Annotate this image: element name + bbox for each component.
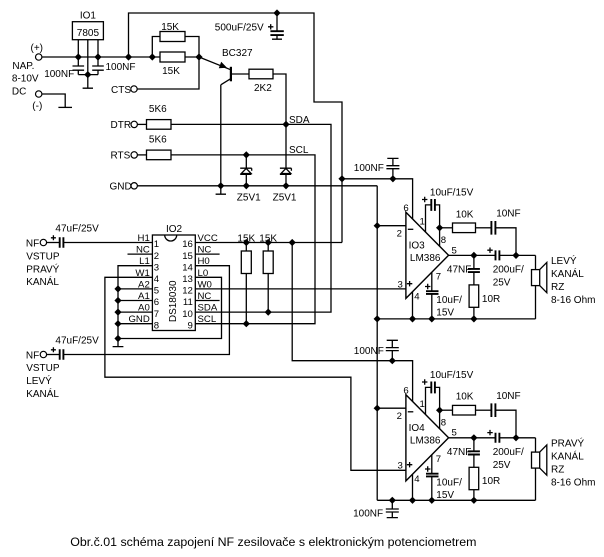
- svg-text:4: 4: [154, 274, 160, 285]
- pin 4 stub IO3: [412, 292, 414, 319]
- svg-text:10: 10: [182, 309, 193, 320]
- capacitor C17 10NF: [491, 403, 495, 417]
- pin number 12: [182, 286, 193, 297]
- label C17 value: [496, 391, 520, 402]
- resistor R5 2K2: [249, 69, 273, 79]
- wire C17 to output: [495, 410, 516, 438]
- svg-text:NF: NF: [26, 238, 39, 249]
- capacitor C8 10uF/15V pin1: [422, 197, 440, 232]
- junction C9 node: [389, 175, 396, 182]
- resistor R4 5K6: [147, 150, 172, 160]
- pin label NC pin 15: [198, 245, 212, 256]
- minus sym IO4: [408, 411, 414, 413]
- svg-text:10uF/15V: 10uF/15V: [430, 370, 474, 381]
- svg-text:IO1: IO1: [80, 11, 97, 22]
- svg-text:200uF/: 200uF/: [493, 447, 524, 458]
- svg-text:RZ: RZ: [551, 282, 564, 293]
- pin 6 label IO4: [403, 386, 408, 397]
- junction rail-GND IO3: [374, 315, 381, 322]
- wire IO4 feedback: [440, 409, 453, 411]
- svg-text:NAP.: NAP.: [12, 61, 34, 72]
- svg-text:VSTUP: VSTUP: [26, 363, 60, 374]
- svg-text:BC327: BC327: [222, 48, 253, 59]
- pin number 2: [154, 251, 159, 262]
- svg-text:7: 7: [436, 454, 441, 465]
- label IO3: [409, 241, 426, 252]
- label C14 value: [354, 346, 384, 357]
- minus sym IO3: [408, 228, 414, 230]
- wire CTS to emitter: [137, 57, 199, 89]
- pin 5 label IO3: [452, 245, 457, 256]
- pin 1 label IO3: [420, 217, 425, 228]
- svg-text:11: 11: [183, 297, 193, 308]
- pin 5 label IO4: [452, 428, 457, 439]
- svg-text:100NF: 100NF: [354, 346, 384, 357]
- label PRAVY: [26, 262, 59, 275]
- wire L1+bus to ground: [113, 266, 153, 347]
- terminal NF lower: [26, 350, 47, 361]
- label KANAL lower: [26, 387, 59, 400]
- svg-text:3: 3: [398, 279, 403, 290]
- pin label A1 pin 6: [138, 291, 150, 302]
- junction rail2-10R: [470, 497, 477, 504]
- junction GND-D1: [243, 182, 250, 189]
- svg-text:1: 1: [420, 217, 425, 228]
- speaker SP1: [532, 255, 547, 292]
- svg-text:(+): (+): [31, 43, 44, 54]
- junction rail-10R: [470, 315, 477, 322]
- label VSTUP lower: [26, 363, 60, 374]
- pin number 3: [154, 262, 159, 273]
- capacitor C1 100NF: [73, 66, 85, 75]
- wire GND lead: [118, 323, 152, 325]
- svg-text:10NF: 10NF: [496, 209, 520, 220]
- svg-text:8: 8: [154, 320, 159, 331]
- terminal NF upper: [26, 238, 47, 249]
- wire SP1 return: [535, 286, 537, 319]
- pin label VCC pin 16: [198, 233, 218, 244]
- svg-text:CTS: CTS: [111, 85, 131, 96]
- wire IO4 supply drop: [292, 243, 412, 402]
- pin label H1 pin 1: [138, 233, 150, 244]
- pin label A2 pin 5: [138, 279, 150, 290]
- wire (-) to ground: [42, 94, 65, 107]
- wire RTS to R4: [137, 154, 146, 156]
- pin number 13: [182, 274, 193, 285]
- terminal (+): [31, 43, 44, 60]
- pin label L1 pin 3: [139, 256, 150, 267]
- label DC: [12, 87, 26, 98]
- wire C18 to speaker: [499, 437, 535, 439]
- pin 15 NC stub: [195, 253, 219, 255]
- junction rail2-pin4: [409, 497, 416, 504]
- junction 500uF node: [273, 9, 280, 16]
- capacitor C10 10uF/15V pin7: [425, 272, 439, 319]
- svg-text:IO2: IO2: [166, 224, 183, 235]
- label PRAVY KANAL2: [551, 449, 584, 462]
- svg-text:SDA: SDA: [289, 115, 310, 126]
- svg-text:KANÁL: KANÁL: [26, 275, 59, 288]
- svg-text:10uF/15V: 10uF/15V: [430, 188, 474, 199]
- label R10 value: [456, 392, 474, 403]
- junction bus L0: [114, 335, 121, 342]
- svg-text:5: 5: [154, 286, 159, 297]
- junction IO4 pin8: [436, 407, 443, 414]
- label C3 value: [215, 22, 264, 33]
- label D2 value: [273, 192, 297, 203]
- op-amp IO3 LM386: [406, 212, 449, 298]
- svg-text:10NF: 10NF: [496, 391, 520, 402]
- wire main supply rail: [42, 56, 199, 58]
- junction VCC-R7: [265, 239, 272, 246]
- pin label A0 pin 7: [138, 303, 150, 314]
- svg-text:13: 13: [182, 274, 193, 285]
- junction SCL-D1: [243, 151, 250, 158]
- label C15 value1: [436, 477, 462, 488]
- junction VCC-R6: [243, 239, 250, 246]
- capacitor C2 100NF: [92, 66, 104, 75]
- junction emitter node: [195, 53, 202, 60]
- resistor R6 15K pullup SCL: [241, 243, 251, 324]
- wire DTR to R3: [137, 123, 146, 125]
- pin number 7: [154, 309, 159, 320]
- resistor R7 15K pullup SDA: [263, 243, 273, 313]
- label IO2: [166, 224, 183, 235]
- caption: [70, 535, 476, 549]
- plus sym IO3: [407, 281, 412, 286]
- svg-text:47NF: 47NF: [447, 265, 471, 276]
- label D1 value: [237, 192, 261, 203]
- resistor R8 10K: [453, 223, 476, 233]
- svg-text:6: 6: [403, 203, 408, 214]
- svg-text:(-): (-): [32, 101, 42, 112]
- pin 2 NC stub: [128, 253, 153, 255]
- capacitor C5 47uF/25V: [47, 347, 64, 359]
- junction top rail tap: [125, 53, 132, 60]
- wire net GND: [137, 185, 377, 187]
- svg-text:8-16 Ohm: 8-16 Ohm: [551, 295, 595, 306]
- svg-text:15K: 15K: [161, 22, 179, 33]
- wire VCC lead: [195, 242, 342, 244]
- svg-text:Z5V1: Z5V1: [237, 192, 261, 203]
- wire R8 to C11: [476, 227, 492, 229]
- pin 8 label IO4: [441, 418, 446, 429]
- junction out-47NF: [470, 252, 477, 259]
- svg-text:8-10V: 8-10V: [12, 74, 39, 85]
- wire L0 return: [118, 277, 222, 338]
- pin number 11: [183, 297, 193, 308]
- svg-text:2K2: 2K2: [254, 83, 272, 94]
- junction rail2-C15: [428, 497, 435, 504]
- svg-text:10K: 10K: [456, 392, 474, 403]
- pin label SCL pin 9: [198, 314, 217, 325]
- pin 3 label IO4: [398, 460, 403, 471]
- wire Q1 base: [231, 73, 249, 75]
- wire H1 input: [63, 242, 152, 244]
- label LEVY KANAL4: [551, 295, 595, 306]
- wire 15K loop: [152, 37, 199, 58]
- svg-text:100NF: 100NF: [353, 508, 383, 519]
- pin 8 stub IO4: [439, 410, 441, 429]
- svg-text:SCL: SCL: [198, 314, 217, 325]
- junction R7-SDA: [265, 309, 272, 316]
- svg-text:5K6: 5K6: [149, 134, 167, 145]
- label R9 value: [482, 294, 500, 305]
- svg-text:25V: 25V: [493, 277, 511, 288]
- pin label NC pin 11: [198, 291, 212, 302]
- junction 7805 out: [94, 53, 101, 60]
- label C15 value2: [436, 490, 454, 501]
- wire A2 lead: [118, 288, 152, 290]
- label LEVY KANAL3: [551, 282, 564, 293]
- label 8-10V: [12, 74, 39, 85]
- svg-text:8-16 Ohm: 8-16 Ohm: [551, 477, 595, 488]
- svg-text:7: 7: [436, 271, 441, 282]
- wire SP2 return: [535, 468, 537, 500]
- pin 2 wire IO3: [377, 225, 406, 227]
- zener D1 Z5V1: [240, 155, 252, 186]
- svg-text:15V: 15V: [436, 490, 454, 501]
- svg-text:KANÁL: KANÁL: [551, 449, 584, 462]
- svg-text:14: 14: [182, 262, 193, 273]
- svg-text:IO3: IO3: [409, 241, 426, 252]
- svg-text:LEVÝ: LEVÝ: [26, 374, 52, 387]
- wire IO3 feedback: [440, 227, 453, 229]
- svg-text:4: 4: [414, 291, 420, 302]
- wire W0 to IO3 pin3: [195, 288, 406, 290]
- junction C14 node: [389, 357, 396, 364]
- label R3 value: [149, 104, 167, 115]
- label PRAVY KANAL3: [551, 464, 564, 475]
- svg-text:15K: 15K: [259, 233, 277, 244]
- svg-text:25V: 25V: [493, 460, 511, 471]
- junction bus GND: [114, 320, 121, 327]
- svg-text:SDA: SDA: [198, 303, 218, 314]
- wire net SDA: [171, 124, 331, 312]
- svg-text:GND: GND: [110, 182, 132, 193]
- junction out2-feedback: [512, 434, 519, 441]
- label C1 value: [44, 69, 74, 80]
- wire Q1 collector: [220, 85, 222, 186]
- svg-text:SCL: SCL: [289, 145, 309, 156]
- wire A1 lead: [118, 300, 152, 302]
- pin number 9: [188, 320, 193, 331]
- regulator IO1 7805: [72, 11, 103, 75]
- terminal GND: [110, 182, 138, 193]
- capacitor C12 200uF/25V: [487, 248, 499, 261]
- junction bus A2: [114, 285, 121, 292]
- resistor R2 15K: [160, 52, 185, 62]
- svg-text:KANÁL: KANÁL: [26, 387, 59, 400]
- label R8 value: [456, 209, 474, 220]
- wire +9V top rail: [129, 13, 343, 243]
- svg-text:15K: 15K: [162, 66, 180, 77]
- pin label L0 pin 13: [198, 268, 209, 279]
- label R2 value: [162, 66, 180, 77]
- pin number 16: [182, 239, 193, 250]
- svg-text:1: 1: [420, 399, 425, 410]
- svg-text:15: 15: [182, 251, 193, 262]
- plus sym IO4: [407, 462, 412, 467]
- svg-text:Z5V1: Z5V1: [273, 192, 297, 203]
- svg-text:9: 9: [188, 320, 193, 331]
- op-amp IO4 LM386: [406, 395, 449, 481]
- label LEVY KANAL1: [551, 254, 577, 267]
- speaker SP2: [532, 438, 547, 475]
- svg-text:15K: 15K: [237, 233, 255, 244]
- pin 4 label IO4: [414, 474, 420, 485]
- wire IO3 supply: [342, 179, 413, 219]
- svg-text:DS18030: DS18030: [168, 280, 179, 322]
- label C9 value: [354, 163, 384, 174]
- svg-text:RZ: RZ: [551, 464, 564, 475]
- junction 7805 in: [75, 53, 82, 60]
- svg-text:12: 12: [182, 286, 193, 297]
- label C19 value: [447, 447, 471, 458]
- svg-text:47NF: 47NF: [447, 447, 471, 458]
- pin number 6: [154, 297, 159, 308]
- wire IO4 bottom rail: [377, 499, 535, 501]
- pin 11 NC stub: [195, 300, 219, 302]
- pin 4 stub IO4: [412, 474, 414, 500]
- svg-text:10uF/: 10uF/: [436, 295, 462, 306]
- terminal (-): [32, 91, 42, 112]
- pin number 4: [154, 274, 160, 285]
- svg-text:10uF/: 10uF/: [436, 477, 462, 488]
- junction VCC-IO4supply: [289, 239, 296, 246]
- resistor R3 5K6: [147, 120, 172, 130]
- svg-text:8: 8: [441, 418, 446, 429]
- label PRAVY KANAL1: [551, 436, 584, 449]
- wire C11 to output: [495, 228, 516, 256]
- svg-text:5: 5: [452, 245, 457, 256]
- svg-text:8: 8: [441, 235, 446, 246]
- svg-text:500uF/25V: 500uF/25V: [215, 22, 264, 33]
- svg-text:LM386: LM386: [410, 436, 441, 447]
- svg-text:47uF/25V: 47uF/25V: [55, 336, 99, 347]
- pin number 14: [182, 262, 193, 273]
- pin number 10: [182, 309, 193, 320]
- label LEVY: [26, 374, 52, 387]
- svg-text:6: 6: [154, 297, 159, 308]
- label R6 value: [237, 233, 255, 244]
- svg-text:DC: DC: [12, 87, 26, 98]
- wire H0 input route: [63, 266, 229, 355]
- label R5 value: [254, 83, 272, 94]
- ground sym 7805: [83, 75, 93, 89]
- resistor R9 10R: [469, 285, 479, 319]
- label IO4: [409, 423, 426, 434]
- junction rail-IO3supply: [338, 175, 345, 182]
- label C18 value2: [493, 460, 511, 471]
- svg-text:2: 2: [397, 411, 402, 422]
- label C2 value: [106, 62, 136, 73]
- svg-text:3: 3: [154, 262, 159, 273]
- label C16 value: [430, 370, 474, 381]
- pin label NC pin 2: [136, 245, 150, 256]
- svg-text:PRAVÝ: PRAVÝ: [26, 262, 59, 275]
- wire W1 route: [105, 277, 406, 470]
- label VSTUP upper: [26, 251, 60, 262]
- pin 3 label IO3: [398, 279, 403, 290]
- capacitor C4 47uF/25V: [47, 235, 64, 247]
- pin 8 stub IO3: [439, 228, 441, 247]
- label C20 value: [353, 508, 383, 519]
- label C12 value2: [493, 277, 511, 288]
- svg-text:LM386: LM386: [410, 253, 441, 264]
- wire cap common: [78, 74, 98, 76]
- label IO3 LM386: [410, 253, 441, 264]
- junction 15K pair left: [149, 53, 156, 60]
- junction R6-SCL: [243, 320, 250, 327]
- label Q1 BC327: [222, 48, 253, 59]
- svg-text:6: 6: [403, 386, 408, 397]
- capacitor C19 47NF: [468, 438, 480, 468]
- terminal RTS: [111, 151, 138, 162]
- capacitor C15 10uF/15V pin7: [425, 455, 439, 501]
- svg-text:15V: 15V: [436, 307, 454, 318]
- svg-text:DTR: DTR: [111, 120, 132, 131]
- label C4 value: [55, 224, 99, 235]
- label NAP.: [12, 61, 34, 72]
- svg-text:10R: 10R: [482, 476, 500, 487]
- pin 6 label IO3: [403, 203, 408, 214]
- pin number 8: [154, 320, 159, 331]
- label C10 value1: [436, 295, 462, 306]
- label LEVY KANAL2: [551, 267, 584, 280]
- label C5 value: [55, 336, 99, 347]
- junction cap common: [84, 71, 91, 78]
- ground sym GND line: [216, 186, 226, 194]
- label net SCL: [289, 145, 309, 156]
- resistor R10 10K: [453, 405, 476, 415]
- pin label H0 pin 14: [198, 256, 210, 267]
- wire C12 to speaker: [499, 254, 535, 256]
- junction rail-C10: [428, 315, 435, 322]
- svg-text:10R: 10R: [482, 294, 500, 305]
- wire GND down right side: [376, 186, 378, 501]
- capacitor C13 47NF: [468, 255, 480, 285]
- pin number 15: [182, 251, 193, 262]
- junction bus A1: [114, 297, 121, 304]
- svg-text:KANÁL: KANÁL: [551, 267, 584, 280]
- wire IO3 output: [449, 254, 496, 256]
- pin 7 label IO3: [436, 271, 441, 282]
- wire 2K2 to SDA: [273, 74, 286, 124]
- pin label SDA pin 10: [198, 303, 218, 314]
- wire R10 to C17: [476, 409, 492, 411]
- svg-text:2: 2: [154, 251, 159, 262]
- junction IO3 pin8: [436, 224, 443, 231]
- label R4 value: [149, 134, 167, 145]
- pin 8 label IO3: [441, 235, 446, 246]
- transistor Q1 BC327: [199, 57, 231, 85]
- pin label GND pin 8: [128, 314, 149, 325]
- svg-text:200uF/: 200uF/: [493, 265, 524, 276]
- junction rail-pin4: [409, 315, 416, 322]
- svg-text:100NF: 100NF: [44, 69, 74, 80]
- label C18 value1: [493, 447, 524, 458]
- pin label W0 pin 12: [198, 279, 212, 290]
- resistor R1 15K: [160, 32, 185, 42]
- resistor R11 10R: [469, 467, 479, 500]
- junction rail2-C20: [389, 497, 396, 504]
- svg-text:5K6: 5K6: [149, 104, 167, 115]
- zener D2 Z5V1: [280, 124, 292, 185]
- label C11 value: [496, 209, 520, 220]
- label KANAL upper: [26, 275, 59, 288]
- svg-text:VSTUP: VSTUP: [26, 251, 60, 262]
